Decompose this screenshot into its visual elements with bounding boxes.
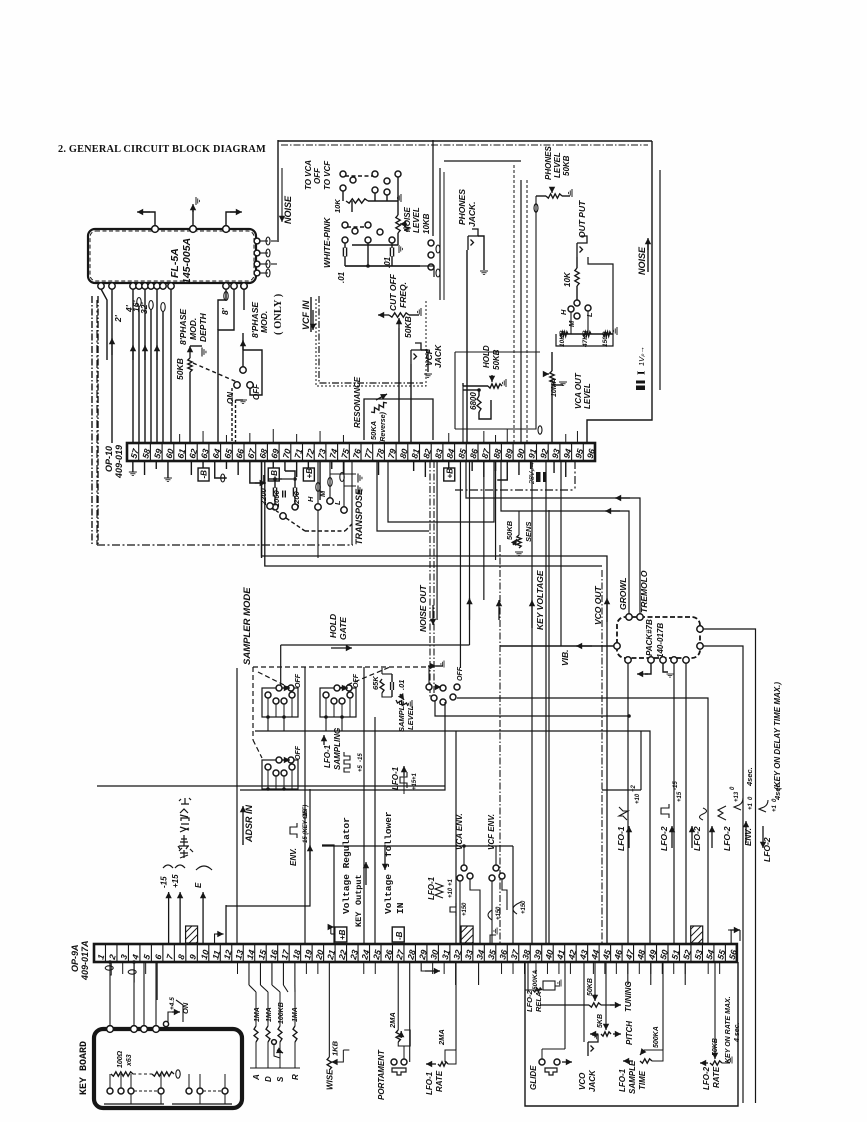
- svg-text:NOISE: NOISE: [283, 195, 293, 224]
- outer second vertical: [659, 170, 661, 390]
- connector OP-10 409-019: [127, 443, 595, 461]
- svg-text:JACK.: JACK.: [467, 201, 477, 227]
- FL-5A top pins: [152, 226, 159, 233]
- svg-text:-15: -15: [673, 781, 679, 790]
- switch GLIDE: [539, 1059, 545, 1065]
- PACK pins bottom: [625, 657, 631, 663]
- svg-text:LFO-1: LFO-1: [427, 876, 436, 900]
- bus verticals dashed: [513, 165, 515, 443]
- wire phones level loop: [455, 196, 536, 429]
- svg-text:VIB.: VIB.: [560, 649, 570, 666]
- label half sine 2: [513, 902, 521, 914]
- jack portament: [391, 1059, 397, 1065]
- svg-text:x63: x63: [126, 1054, 133, 1067]
- wire vca out to strip: [551, 429, 553, 443]
- svg-text:SAMPLER MODE: SAMPLER MODE: [242, 587, 253, 665]
- svg-text:D: D: [264, 1076, 273, 1082]
- svg-text:(Reverse): (Reverse): [380, 411, 387, 444]
- bus top rail: [444, 160, 521, 162]
- svg-text:LFO-1: LFO-1: [323, 744, 332, 768]
- svg-text:-B: -B: [270, 470, 279, 479]
- stub wires below OP-9A: [122, 962, 124, 974]
- svg-text:E: E: [194, 882, 203, 888]
- svg-text:TREMOLO: TREMOLO: [639, 570, 649, 613]
- connector OP-9A 409-017A: [94, 944, 737, 962]
- svg-text:1MA: 1MA: [266, 1007, 273, 1022]
- svg-text:50KA: 50KA: [369, 421, 378, 440]
- wire pot down to strip: [189, 372, 191, 443]
- wire noiseout dashdot pair: [429, 461, 431, 697]
- svg-text:-15: -15: [358, 753, 364, 762]
- svg-text:1KB: 1KB: [330, 1040, 339, 1056]
- ADSR wires down: [248, 962, 250, 985]
- svg-text:OP-9A: OP-9A: [70, 944, 80, 972]
- svg-text:TIME: TIME: [638, 1070, 647, 1090]
- svg-text:+15: +15: [677, 791, 683, 802]
- svg-text:50KB: 50KB: [587, 978, 594, 996]
- svg-text:VCO: VCO: [578, 1072, 587, 1090]
- noise box right edge: [432, 140, 434, 236]
- svg-text:32': 32': [139, 302, 149, 314]
- wire pack pin4 down: [673, 663, 675, 944]
- svg-text:140-017B: 140-017B: [656, 623, 665, 658]
- wire cell47 down: [627, 962, 629, 985]
- svg-text:OP-10: OP-10: [104, 446, 114, 472]
- arrow -15: [168, 892, 170, 944]
- svg-text:-15: -15: [160, 876, 169, 888]
- svg-text:409-019: 409-019: [114, 445, 124, 479]
- svg-text:NOISE OUT: NOISE OUT: [418, 584, 428, 632]
- svg-text:LEVEL: LEVEL: [553, 152, 562, 178]
- svg-text:LFO-1: LFO-1: [616, 826, 626, 851]
- svg-text:KEY VOLTAGE: KEY VOLTAGE: [535, 570, 545, 630]
- wire noise level down: [397, 233, 399, 245]
- svg-text:ON: ON: [226, 392, 235, 404]
- svg-text:50KB: 50KB: [505, 520, 514, 540]
- board outline dash-dot right segment: [455, 489, 575, 491]
- svg-text:+B: +B: [338, 929, 347, 940]
- svg-text:KEY BOARD: KEY BOARD: [79, 1041, 90, 1095]
- wire vca section rail: [455, 351, 540, 353]
- noise box right contacts: [428, 240, 434, 246]
- svg-text:LFO-1: LFO-1: [618, 1068, 627, 1092]
- svg-text:JACK: JACK: [433, 344, 443, 368]
- bottom right box: [525, 962, 738, 1106]
- svg-text:-B: -B: [395, 931, 404, 940]
- svg-text:NOISE: NOISE: [637, 246, 647, 275]
- wire keyvolt vert b: [531, 461, 533, 944]
- wire 8phase only: [243, 286, 245, 310]
- svg-text:H: H: [559, 309, 568, 315]
- svg-text:JACK: JACK: [588, 1069, 597, 1092]
- svg-text:500KA: 500KA: [653, 1026, 660, 1048]
- keyboard box: [94, 1029, 242, 1108]
- svg-text:+1: +1: [448, 878, 454, 886]
- svg-text:( ONLY ): ( ONLY ): [273, 293, 284, 335]
- svg-text:+B: +B: [305, 468, 314, 479]
- svg-text:TO VCA: TO VCA: [304, 160, 313, 190]
- switch sampler A: [262, 688, 298, 717]
- wire cell49 down: [650, 962, 652, 985]
- wires 4-32' down to strip: [111, 289, 113, 443]
- svg-text:PACK#7B: PACK#7B: [645, 619, 654, 656]
- wire cell 78 corner: [377, 461, 429, 531]
- ADSR resistors: [254, 1026, 258, 1042]
- wire noise out left: [277, 140, 279, 242]
- wire FL-5A pin to right arrow: [226, 212, 236, 226]
- svg-text:GLIDE: GLIDE: [529, 1065, 538, 1090]
- up arrows on wires: [111, 338, 113, 355]
- box +B cell 72: [307, 461, 309, 468]
- wire kb to cell4: [133, 962, 135, 982]
- dashed wiper link: [193, 363, 237, 382]
- svg-text:VCF ENV.: VCF ENV.: [487, 814, 496, 850]
- wire sampler A down: [267, 717, 269, 731]
- svg-text:KEY ON RATE MAX.: KEY ON RATE MAX.: [725, 996, 732, 1063]
- switch H M L: [574, 300, 580, 306]
- transpose pin ellipses: [316, 483, 320, 492]
- hook wire cell 64: [215, 461, 227, 478]
- FL-5A right pin stubs: [260, 240, 268, 242]
- wire pack pin3 gnd: [663, 663, 668, 672]
- svg-text:TO VCF: TO VCF: [323, 160, 332, 190]
- svg-text:L: L: [333, 500, 342, 505]
- svg-text:-B: -B: [200, 470, 209, 479]
- hook wire cell 67: [250, 461, 264, 483]
- PACK pins right: [697, 626, 703, 632]
- svg-text:DEPTH: DEPTH: [198, 312, 208, 342]
- svg-text:100KB: 100KB: [278, 1002, 285, 1024]
- svg-text:LFO-2: LFO-2: [659, 826, 669, 851]
- svg-text:ADSR IN: ADSR IN: [244, 804, 254, 843]
- svg-text:OFF: OFF: [457, 666, 464, 681]
- svg-text:4sec.: 4sec.: [745, 767, 754, 787]
- wire keyvolt vert: [545, 461, 547, 944]
- waveform 28Vp-p mark: [529, 462, 536, 485]
- pot RESONANCE 50KA: [371, 402, 387, 412]
- wire FL-5A pin up with ground: [192, 207, 194, 226]
- wire growl feed: [501, 461, 629, 614]
- wire FL-5A pin to left arrow: [141, 212, 155, 226]
- keyboard key contacts: [107, 1088, 113, 1094]
- arrow +15: [179, 892, 181, 944]
- svg-text:LFO-1: LFO-1: [425, 1071, 434, 1095]
- label power unit japanese: [178, 798, 193, 858]
- svg-text:HOLD: HOLD: [328, 614, 338, 638]
- IC FL-5A 145-005A: [88, 229, 256, 283]
- attenuator resistors rail: [560, 333, 613, 335]
- svg-text:4 sec.: 4 sec.: [734, 1022, 741, 1043]
- pot NOISE LEVEL 10KB: [397, 201, 399, 215]
- svg-text:OUT PUT: OUT PUT: [577, 200, 587, 238]
- keyboard wires up: [109, 962, 111, 1026]
- board outline dash-dot bottom: [97, 544, 353, 546]
- wire sampler drop3: [374, 717, 376, 944]
- switch sampler C lower: [262, 760, 298, 789]
- svg-text:PHONES: PHONES: [544, 146, 553, 180]
- switch wiper dashed transpose: [280, 513, 286, 519]
- wire cell52 down: [684, 962, 686, 985]
- svg-text:+10: +10: [635, 793, 641, 804]
- svg-text:65K: 65K: [371, 676, 380, 690]
- svg-text:SAMPLE: SAMPLE: [397, 700, 406, 732]
- wire kb to cell2: [110, 962, 111, 975]
- dash-dot long vert: [499, 545, 501, 944]
- wire phones down: [466, 250, 468, 443]
- svg-text:409-017A: 409-017A: [80, 940, 90, 981]
- board outline dash-dot left: [96, 300, 98, 545]
- svg-text:2MA: 2MA: [388, 1012, 397, 1029]
- svg-text:VCA ENV.: VCA ENV.: [455, 813, 464, 850]
- svg-text:CUT OFF: CUT OFF: [388, 273, 398, 311]
- wire sw to 10K rail: [342, 191, 344, 201]
- svg-text:SAMPLE: SAMPLE: [628, 1060, 637, 1094]
- svg-text:TRANSPOSE: TRANSPOSE: [354, 488, 364, 545]
- wire sampler drop: [304, 667, 306, 944]
- svg-text:+2: +2: [631, 784, 637, 792]
- svg-text:RATE: RATE: [435, 1070, 444, 1092]
- wire sampler C to cell: [226, 789, 310, 944]
- wire pack left pin: [500, 645, 614, 647]
- svg-text:8': 8': [220, 307, 230, 315]
- svg-text:FREQ.: FREQ.: [398, 282, 408, 308]
- svg-text:HOLD: HOLD: [482, 345, 491, 368]
- wire cell32 down: [455, 962, 457, 985]
- wire cell56 hook: [728, 930, 731, 944]
- IC PACK#7B 140-017B: [617, 617, 700, 658]
- ADSR bottom rail: [250, 1067, 300, 1069]
- pot PORTAMENT 2MA: [397, 962, 399, 1030]
- svg-text:+1: +1: [748, 802, 754, 810]
- wire phones box left: [454, 352, 456, 429]
- wire cutoff down to strip cell 80: [398, 328, 400, 443]
- label sq15: [450, 903, 456, 916]
- waveform 1Vp-p mark: [636, 346, 648, 390]
- wire long rail B: [265, 461, 602, 566]
- wire pack pin2 arrow: [645, 663, 651, 674]
- svg-text:+13: +13: [734, 791, 740, 802]
- jack VCO JACK: [588, 1035, 598, 1056]
- switch sampler D right: [426, 684, 432, 690]
- wire vert c85 down: [459, 461, 461, 668]
- wire jog cells 79-88: [388, 461, 494, 522]
- FL-5A right pins: [254, 238, 260, 244]
- box -B cell 27: [392, 927, 404, 942]
- switch sampler B: [320, 688, 356, 717]
- svg-text:150B: 150B: [602, 331, 609, 347]
- transpose caps rail: [282, 478, 293, 480]
- wire pin 2' down: [101, 289, 107, 360]
- hatch box cell 53: [691, 926, 703, 943]
- wire transpose frame: [317, 510, 319, 558]
- svg-text:MOD.: MOD.: [259, 311, 269, 333]
- svg-text:2. GENERAL CIRCUIT BLOCK DIAGR: 2. GENERAL CIRCUIT BLOCK DIAGRAM: [58, 144, 266, 155]
- hatch box cell 33: [461, 926, 473, 943]
- svg-text:R: R: [291, 1074, 300, 1080]
- svg-text:50KB: 50KB: [403, 316, 413, 338]
- switch noise dest: [340, 171, 346, 177]
- wire cell 11 hook: [215, 934, 221, 944]
- svg-text:L: L: [585, 312, 594, 317]
- svg-text:.01: .01: [397, 680, 406, 690]
- wire sampler drop2: [363, 667, 365, 944]
- wire vcf env down: [491, 881, 493, 944]
- svg-text:10K: 10K: [563, 271, 572, 287]
- wire cell 12 up: [225, 905, 227, 944]
- svg-text:LEVEL: LEVEL: [412, 207, 421, 233]
- wire voltage reg corner: [322, 845, 334, 944]
- wire cell29 arrow: [421, 962, 437, 971]
- jack phones: [468, 229, 478, 250]
- pot LFO-2 RATE 50KB: [700, 1062, 708, 1064]
- svg-text:.01: .01: [337, 271, 346, 283]
- svg-text:LEVEL: LEVEL: [406, 705, 415, 730]
- svg-text:RATE: RATE: [712, 1066, 721, 1088]
- svg-text:2200: 2200: [259, 487, 268, 506]
- keyboard resistor chain 100ohm: [111, 1072, 133, 1076]
- arrow E: [202, 892, 204, 944]
- wire white-pink bottom rail: [345, 265, 420, 267]
- box +B cell 84: [448, 461, 450, 468]
- pin ellipses: [137, 298, 141, 307]
- sampler mode dashed border: [253, 666, 430, 668]
- svg-text:ENV.: ENV.: [289, 848, 298, 866]
- svg-text:+4.5: +4.5: [169, 997, 176, 1010]
- svg-text:Output: Output: [354, 874, 364, 905]
- wire glide up: [564, 962, 566, 1049]
- svg-text:LFO-2: LFO-2: [525, 990, 534, 1012]
- svg-text:+1: +1: [772, 804, 778, 812]
- wire vert c88 down: [495, 461, 497, 560]
- ground stub cell 57: [132, 461, 134, 472]
- pot WISE 1KB: [328, 962, 330, 1057]
- svg-text:FL-5A: FL-5A: [169, 248, 181, 278]
- dash-dot long vert2: [601, 570, 603, 944]
- svg-text:10KB: 10KB: [422, 213, 431, 234]
- svg-text:S: S: [276, 1076, 285, 1082]
- wire vco vert: [560, 461, 562, 646]
- svg-text:+1: +1: [412, 772, 418, 780]
- wire keyvolt vert2: [548, 510, 550, 944]
- wire sampler rail 786: [97, 785, 445, 787]
- pot PITCH 5KB: [590, 1033, 598, 1035]
- svg-text:LFO-2: LFO-2: [702, 1066, 711, 1090]
- svg-text:OFF: OFF: [295, 745, 302, 760]
- label half sine 1: [488, 910, 492, 920]
- svg-text:KEY: KEY: [354, 911, 364, 927]
- wire lfo1w vert: [455, 731, 457, 944]
- wire cell 68 long down: [261, 461, 263, 558]
- svg-text:5KB: 5KB: [597, 1014, 604, 1028]
- svg-text:I: I: [636, 371, 648, 375]
- svg-text:8'PHASE: 8'PHASE: [178, 309, 188, 345]
- svg-text:H: H: [306, 496, 315, 502]
- box -B cell 63: [202, 461, 204, 468]
- noise board outline: [278, 140, 652, 142]
- svg-text:OFF: OFF: [252, 383, 261, 400]
- wire sampler rail 698: [457, 698, 708, 944]
- wire sampler rail 716: [435, 701, 629, 716]
- svg-text:10KB: 10KB: [559, 330, 566, 347]
- wire pack pin1 down: [627, 663, 629, 944]
- box -B cell 69: [272, 461, 274, 468]
- wire vca env down: [459, 881, 461, 944]
- svg-text:TUNING: TUNING: [624, 981, 633, 1012]
- wire sampler rail 731: [255, 731, 650, 944]
- svg-text:145-005A: 145-005A: [181, 238, 193, 284]
- ADSR switch on S: [274, 1044, 280, 1058]
- svg-text:LFO-2: LFO-2: [722, 826, 732, 851]
- wire pack right pin1: [703, 629, 756, 1103]
- wire dashdot left: [91, 296, 93, 545]
- wire 1kb right up: [343, 1049, 349, 1051]
- PACK pin left: [614, 643, 620, 649]
- svg-text:+15: +15: [171, 874, 180, 888]
- sampler D pot: [428, 665, 436, 667]
- svg-text:100Ω: 100Ω: [117, 1050, 124, 1068]
- switch white-pink: [342, 222, 348, 228]
- wire long rail A: [262, 461, 608, 944]
- svg-text:PORTAMENT: PORTAMENT: [377, 1049, 386, 1100]
- keyboard top pins: [107, 1026, 114, 1033]
- svg-text:Voltage Regulator: Voltage Regulator: [341, 817, 352, 914]
- wire vert c87 down: [483, 461, 485, 600]
- svg-text:PHONES: PHONES: [457, 189, 467, 225]
- noise cluster bottom rail: [345, 266, 434, 277]
- svg-text:50KB: 50KB: [492, 349, 501, 370]
- transpose grounds: [358, 474, 362, 483]
- wire sampler rail 790: [240, 702, 445, 790]
- svg-text:LFO-1: LFO-1: [391, 766, 400, 790]
- svg-text:1MA: 1MA: [254, 1007, 261, 1022]
- attenuator box: [556, 257, 613, 346]
- svg-text:2MA: 2MA: [437, 1029, 446, 1046]
- wire caps rail up: [285, 471, 295, 479]
- wire rail down: [351, 201, 353, 212]
- pot LFO-1 SAMPLE TIME 500KA: [623, 1060, 633, 1062]
- svg-text:RESONANCE: RESONANCE: [353, 376, 362, 428]
- stub wires above OP-10: [179, 434, 181, 443]
- pot SAMPLE LEVEL: [396, 700, 408, 706]
- jack output: [577, 236, 587, 257]
- stub wires below OP-10: [144, 461, 146, 475]
- svg-text:50KB: 50KB: [562, 155, 571, 176]
- wire cell6 down: [156, 962, 158, 1000]
- svg-text:LEVEL: LEVEL: [583, 383, 592, 409]
- resonance box: [364, 399, 433, 440]
- pot TUNING 50KB: [540, 1004, 589, 1006]
- wire vert c83 down: [436, 461, 438, 620]
- svg-text:-15 (KEY OFF): -15 (KEY OFF): [303, 805, 309, 845]
- svg-text:2': 2': [113, 314, 123, 323]
- switch vca env: [461, 865, 467, 871]
- wire env rail: [322, 845, 513, 847]
- brace power: [163, 865, 173, 868]
- svg-text:OFF: OFF: [295, 673, 302, 688]
- wire cell34 down: [478, 962, 480, 985]
- ground cell 35: [490, 935, 496, 944]
- right outer wire: [587, 141, 652, 443]
- wire hold gate vert: [469, 461, 471, 645]
- VCF IN enclosure dash-dot: [319, 296, 423, 383]
- svg-text:6800: 6800: [469, 392, 478, 410]
- svg-text:VCA OUT: VCA OUT: [574, 372, 583, 409]
- svg-text:WISE: WISE: [325, 1069, 334, 1090]
- svg-text:A: A: [252, 1074, 261, 1081]
- wire cell 73 down: [319, 461, 321, 500]
- pot LFO-1 RATE 2MA: [455, 962, 457, 1050]
- ground stub cell 60: [167, 461, 169, 478]
